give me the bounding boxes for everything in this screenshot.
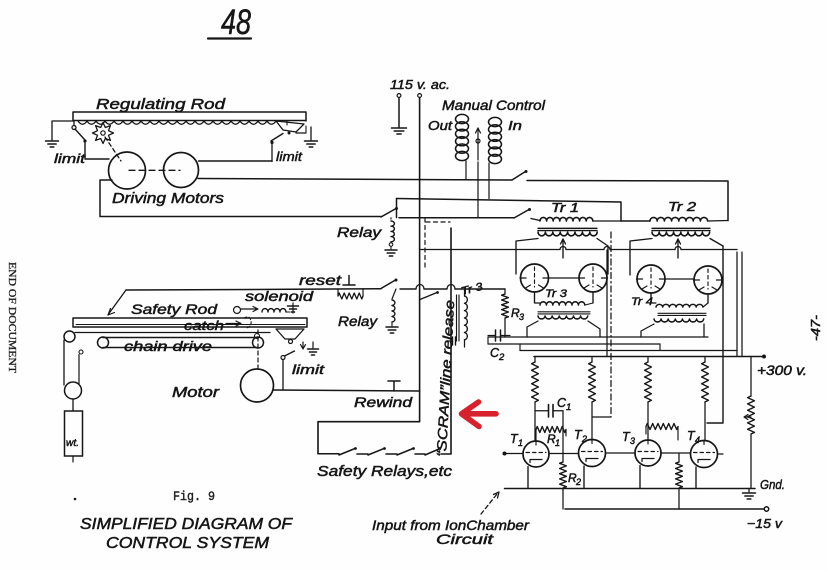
svg-text:solenoid: solenoid bbox=[245, 289, 314, 304]
svg-text:48: 48 bbox=[221, 3, 251, 42]
svg-text:In: In bbox=[508, 118, 522, 133]
svg-text:1: 1 bbox=[555, 438, 560, 448]
svg-text:1: 1 bbox=[518, 438, 523, 448]
svg-text:3: 3 bbox=[519, 312, 524, 322]
svg-text:Relay: Relay bbox=[338, 314, 378, 329]
svg-text:limit: limit bbox=[54, 151, 87, 166]
svg-text:−15 v: −15 v bbox=[747, 516, 784, 531]
svg-text:2: 2 bbox=[498, 352, 505, 363]
svg-text:Safety Rod: Safety Rod bbox=[131, 301, 219, 317]
svg-text:Safety Relays,etc: Safety Relays,etc bbox=[317, 463, 453, 480]
svg-text:Rewind: Rewind bbox=[354, 395, 413, 410]
svg-text:115 v. ac.: 115 v. ac. bbox=[390, 77, 450, 92]
svg-text:-47-: -47- bbox=[808, 314, 823, 341]
svg-text:Driving Motors: Driving Motors bbox=[112, 190, 225, 207]
svg-text:Relay: Relay bbox=[337, 225, 383, 240]
svg-text:+300 v.: +300 v. bbox=[757, 363, 807, 378]
svg-text:2: 2 bbox=[581, 434, 587, 444]
svg-text:Gnd.: Gnd. bbox=[760, 477, 785, 492]
svg-text:2: 2 bbox=[575, 477, 581, 487]
svg-text:catch: catch bbox=[184, 318, 224, 333]
svg-text:4: 4 bbox=[695, 435, 700, 445]
svg-text:Regulating Rod: Regulating Rod bbox=[96, 96, 226, 113]
svg-text:Tr 1: Tr 1 bbox=[551, 201, 579, 215]
svg-text:wt.: wt. bbox=[66, 438, 79, 449]
svg-text:Motor: Motor bbox=[172, 385, 220, 401]
svg-text:END OF DOCUMENT: END OF DOCUMENT bbox=[6, 262, 17, 374]
svg-text:3: 3 bbox=[630, 436, 635, 446]
svg-text:chain drive: chain drive bbox=[124, 339, 212, 354]
svg-text:Manual Control: Manual Control bbox=[442, 97, 546, 113]
svg-text:Tr 2: Tr 2 bbox=[668, 200, 696, 214]
svg-text:Fig. 9: Fig. 9 bbox=[173, 489, 215, 504]
svg-text:limit: limit bbox=[276, 149, 304, 164]
svg-text:1: 1 bbox=[566, 402, 571, 413]
svg-text:Out: Out bbox=[428, 118, 454, 133]
svg-text:SIMPLIFIED DIAGRAM OF: SIMPLIFIED DIAGRAM OF bbox=[80, 516, 294, 533]
svg-text:CONTROL SYSTEM: CONTROL SYSTEM bbox=[106, 535, 269, 552]
svg-text:reset: reset bbox=[299, 272, 342, 288]
svg-text:Tr 3: Tr 3 bbox=[545, 288, 568, 300]
svg-text:Tr 4: Tr 4 bbox=[631, 296, 653, 308]
svg-text:limit: limit bbox=[292, 362, 326, 377]
svg-text:Circuit: Circuit bbox=[436, 531, 495, 547]
